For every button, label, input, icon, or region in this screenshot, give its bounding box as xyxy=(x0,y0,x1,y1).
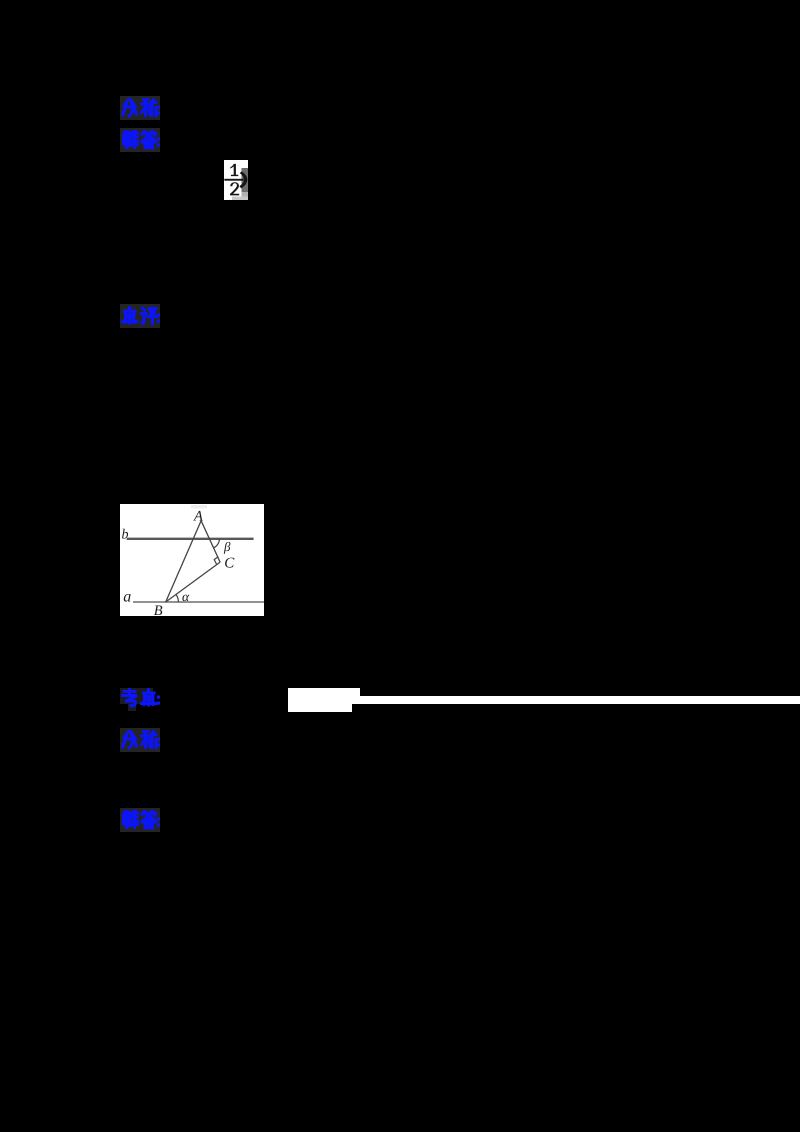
svg-text:b: b xyxy=(121,527,128,542)
fraction bar xyxy=(224,179,243,181)
svg-text:α: α xyxy=(182,589,190,604)
label box: fenxi row5 xyxy=(120,728,160,752)
blue label fenxi: row5 xyxy=(121,730,162,751)
angle arc at B xyxy=(176,594,178,602)
faint strip above A xyxy=(191,505,207,509)
figure labels xyxy=(121,508,235,619)
side AB xyxy=(165,520,200,601)
label box: jieda row2 xyxy=(120,128,160,152)
blue label dianping: row3 xyxy=(121,306,162,327)
white horizontal bar to right edge xyxy=(360,696,800,704)
blue label fenxi: row1 xyxy=(121,98,162,119)
label box: jieda row6 xyxy=(120,808,160,832)
svg-text:A: A xyxy=(193,508,203,524)
blue label jieda: row2 xyxy=(121,130,162,151)
blue label jieda: row6 xyxy=(121,810,162,831)
side BC xyxy=(165,562,219,602)
white equation patch row4 xyxy=(288,688,352,712)
svg-text:β: β xyxy=(223,539,231,554)
label box: kaodian row4 xyxy=(120,688,153,704)
line b xyxy=(126,537,253,539)
svg-text:a: a xyxy=(123,588,131,605)
white patch step xyxy=(352,688,360,704)
digit 2 xyxy=(230,182,239,195)
right angle mark at C xyxy=(214,556,218,564)
label box notch row4 xyxy=(128,703,136,711)
digit 1 xyxy=(230,164,238,176)
closing paren xyxy=(239,171,247,188)
angle arc at beta crossing xyxy=(213,538,219,547)
svg-text:B: B xyxy=(153,603,162,616)
equation fragment: white patch with 1/2 and paren xyxy=(224,160,257,201)
label box: dianping row3 xyxy=(120,304,160,328)
side AC xyxy=(201,520,220,561)
label box: fenxi row1 xyxy=(120,96,160,120)
blue label kaodian: row4 xyxy=(121,688,162,709)
svg-text:C: C xyxy=(224,555,235,571)
line a xyxy=(133,601,264,603)
geometry figure: parallel lines a,b with triangle ABC xyxy=(120,504,264,616)
